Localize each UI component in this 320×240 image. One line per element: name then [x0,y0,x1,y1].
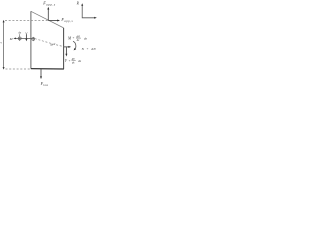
svg-text:+: + [87,47,89,51]
dimension line v [3,22,5,69]
svg-text:V: V [65,59,68,63]
svg-text:+: + [73,36,75,40]
svg-text:dx: dx [84,37,88,41]
moment arc M+dM [73,41,76,50]
moment arrow M [15,37,35,39]
svg-text:app,z: app,z [46,2,56,6]
svg-text:dx: dx [19,32,22,35]
shear arrow V+dV [65,47,67,54]
beam element outline [31,11,64,28]
svg-text:dx: dx [77,39,80,42]
svg-text:dx: dx [72,62,75,65]
svg-text:dx: dx [78,59,82,63]
dashed reference line top [5,19,48,21]
force arrow F_app,z [47,9,49,21]
centroid circle on edge [32,38,35,41]
svg-text:low: low [43,84,48,87]
svg-text:N: N [81,47,85,51]
shear arrow V [25,34,27,39]
axial arrow N+dN [64,46,70,48]
svg-text:app,x: app,x [64,20,73,23]
svg-text:v: v [1,40,3,44]
beam right edge [63,28,65,69]
force arrow F_low [40,69,42,77]
svg-text:R: R [76,1,80,5]
svg-text:M: M [67,36,72,40]
moment symbol at origin: plus cross with circle [18,37,21,40]
svg-text:M: M [9,37,13,41]
dashed reference line bottom [6,68,31,70]
beam bottom edge [31,68,64,70]
svg-text:dN: dN [91,47,96,51]
force arrow F_app,x [48,20,58,22]
dashed centroid axis [35,39,64,47]
svg-text:+: + [69,59,71,63]
svg-text:V: V [25,31,28,35]
